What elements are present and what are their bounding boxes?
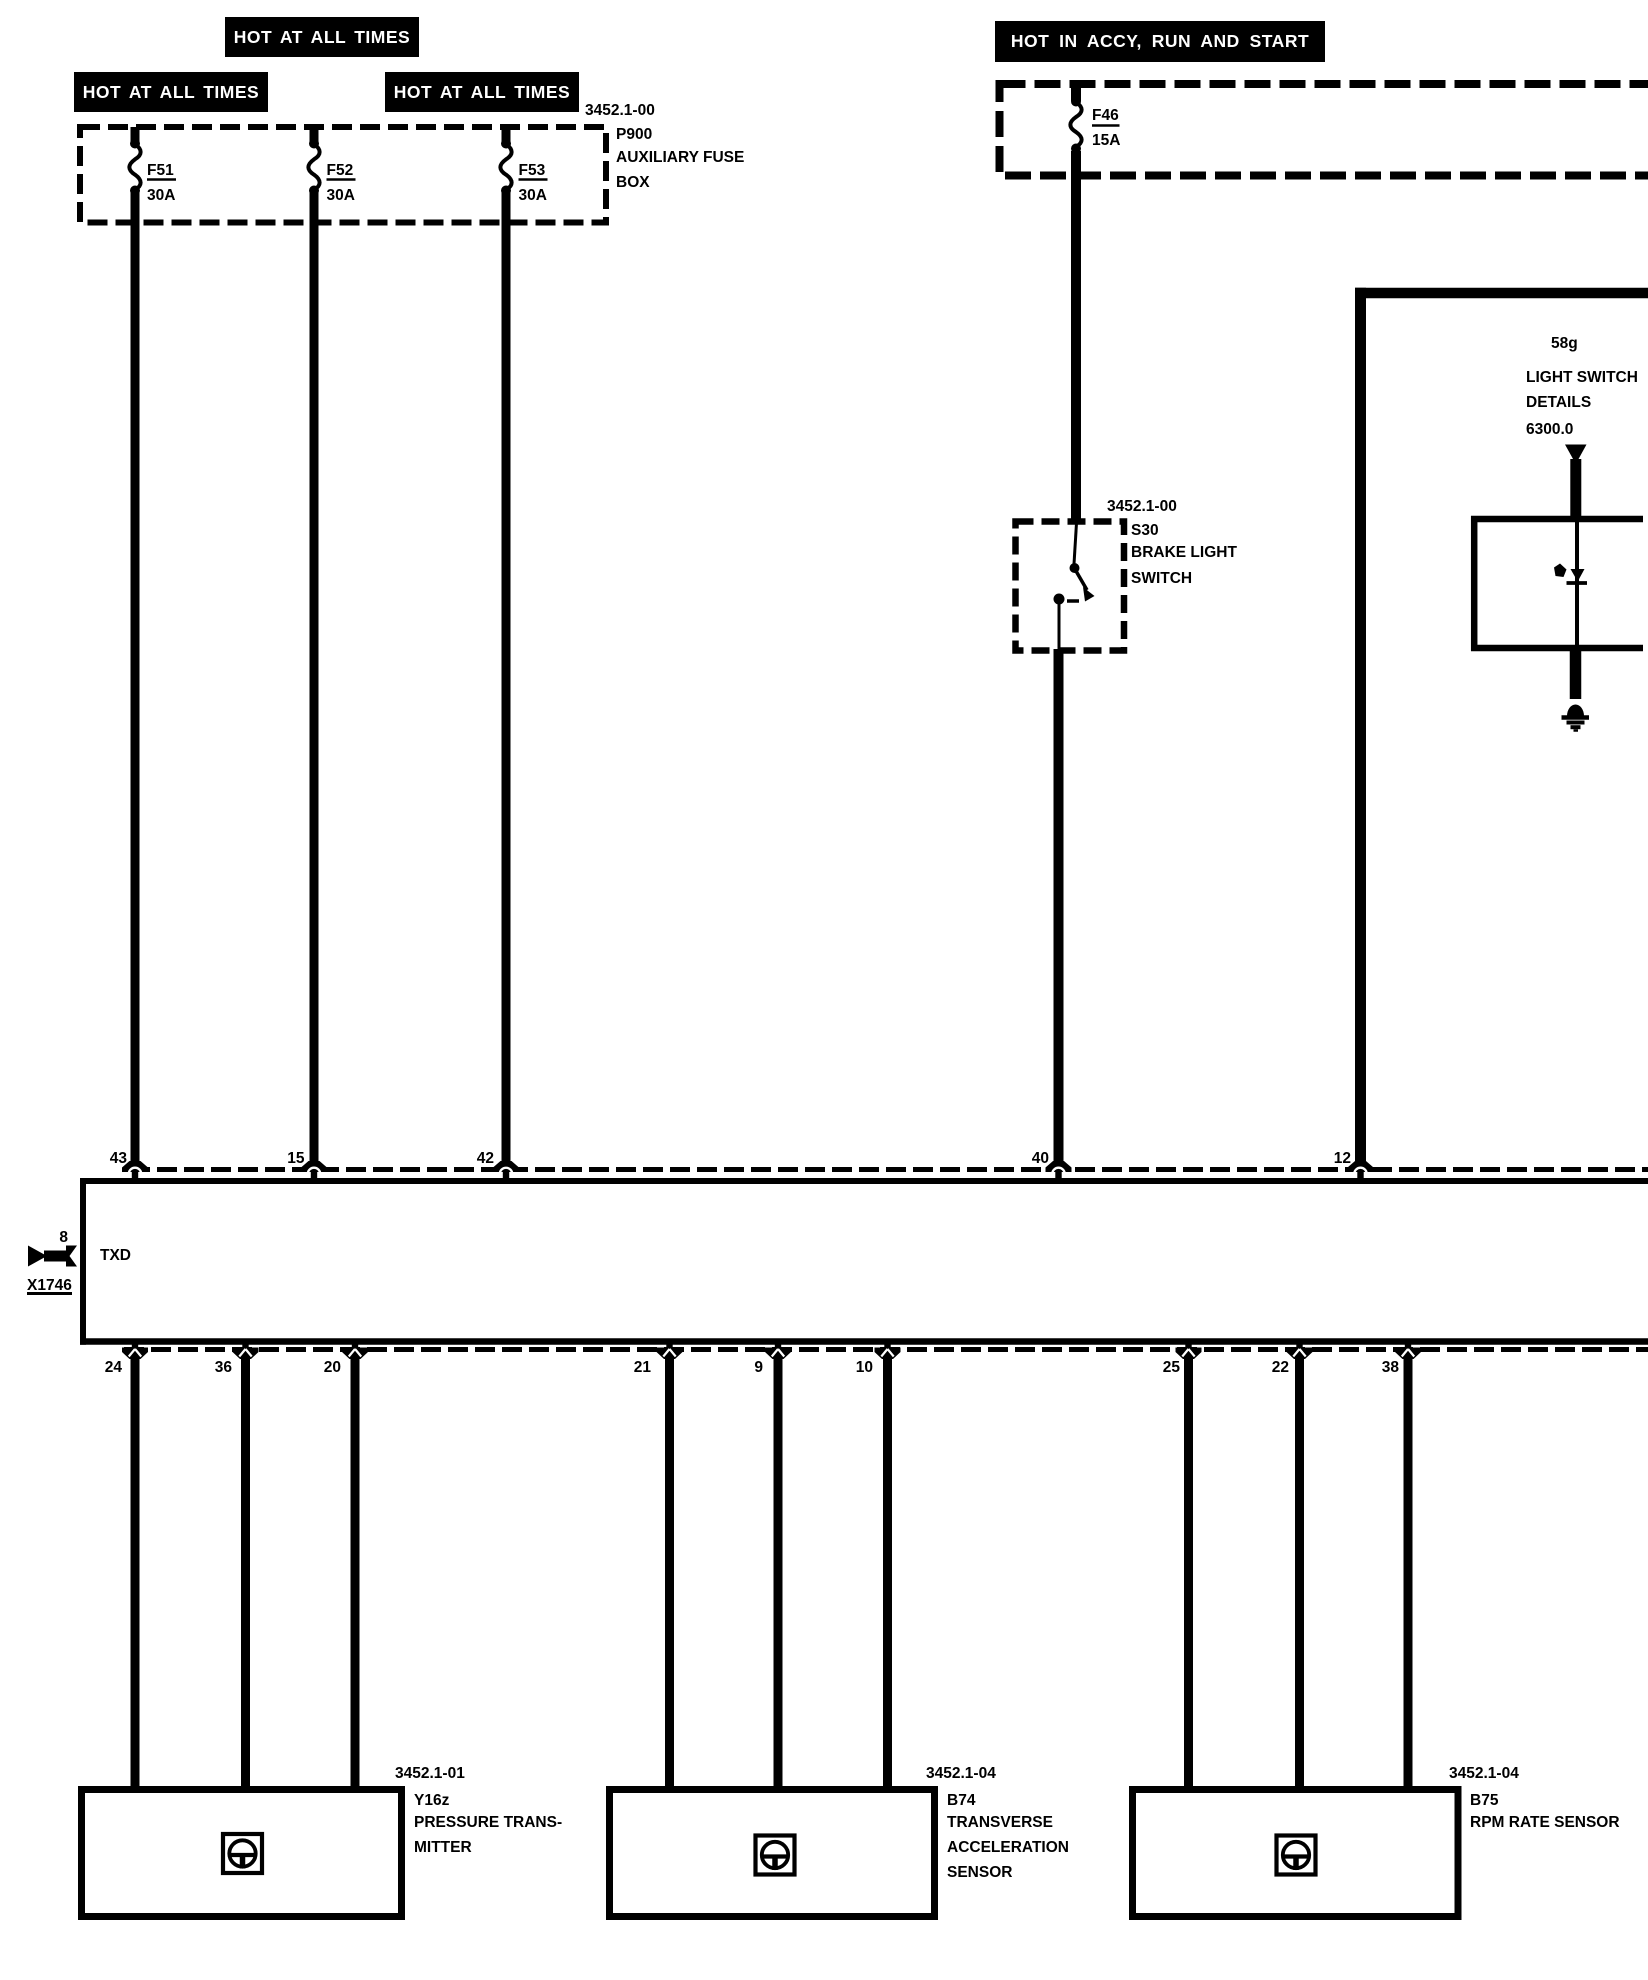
fuse F52 label xyxy=(327,162,354,179)
arrow into light switch details xyxy=(1565,445,1587,465)
wire pin 38 to sensor xyxy=(1395,1340,1421,1359)
rpm rate sensor B75 box xyxy=(1133,1790,1459,1917)
X1746 underline xyxy=(27,1292,72,1295)
wire from S30 to band pin 40 xyxy=(1054,649,1064,1166)
wire from fuse F52 to band xyxy=(310,193,319,1166)
wire pin 10 to sensor xyxy=(875,1340,901,1359)
wire pin 21 to sensor xyxy=(657,1340,683,1359)
wire pin 9 to sensor xyxy=(765,1340,791,1359)
wire pin 25 to sensor xyxy=(1176,1340,1202,1359)
ground symbol xyxy=(1567,705,1584,717)
header HOT AT ALL TIMES (left) xyxy=(74,72,268,112)
wire from fuse F46 to brake light switch S30 xyxy=(1071,151,1081,520)
pin numbers bottom row xyxy=(105,1359,122,1376)
control unit band bottom dashed line xyxy=(124,1347,1648,1352)
label B75 rpm rate sensor xyxy=(1449,1765,1519,1782)
label Y16z pressure transmitter xyxy=(395,1765,465,1782)
fuse F46 xyxy=(1071,84,1081,101)
header HOT IN ACCY RUN AND START xyxy=(995,21,1325,62)
wire pin 22 to sensor xyxy=(1287,1340,1313,1359)
fuse F52 xyxy=(310,127,319,143)
wire pin 24 to sensor xyxy=(122,1340,148,1359)
connector X1746 labels xyxy=(59,1229,68,1246)
fuse F53 xyxy=(502,127,511,143)
header HOT AT ALL TIMES (right) xyxy=(385,72,579,112)
fuse box P900 dashed outline xyxy=(80,127,606,223)
light switch details box xyxy=(1471,516,1643,523)
fuse F53 label xyxy=(519,162,546,179)
wire pin 36 to sensor xyxy=(233,1340,259,1359)
wire from fuse F53 to band xyxy=(502,193,511,1166)
pressure transmitter Y16z box xyxy=(82,1790,402,1917)
light switch wiper symbol xyxy=(1571,569,1585,582)
fuse label underlines xyxy=(147,178,176,181)
wire from arrow to light switch box xyxy=(1570,459,1581,520)
light switch contact wire xyxy=(1575,519,1579,648)
transverse acceleration sensor B74 box xyxy=(610,1790,935,1917)
label P900 auxiliary fuse box xyxy=(585,102,655,119)
header HOT AT ALL TIMES (top) xyxy=(225,17,419,57)
fuse F51 xyxy=(131,127,140,143)
label B74 transverse acceleration sensor xyxy=(926,1765,996,1782)
control unit band rectangle xyxy=(80,1178,1648,1184)
control module box outline top edge xyxy=(1355,288,1648,299)
label S30 brake light switch xyxy=(1107,498,1177,515)
connector X1746 arrow xyxy=(28,1246,47,1267)
wire from light switch to ground xyxy=(1570,648,1582,699)
wire from fuse F51 to band xyxy=(131,193,140,1166)
control module box outline left edge / wire pin 12 xyxy=(1355,288,1366,1166)
pin numbers top row xyxy=(110,1150,127,1167)
fuse box F46 dashed outline xyxy=(1000,84,1648,176)
label 58g light switch details xyxy=(1551,335,1578,352)
wire pin 20 to sensor xyxy=(342,1340,368,1359)
fuse F51 label xyxy=(147,162,174,179)
brake light switch S30 dashed outline xyxy=(1016,522,1125,651)
control unit band top dashed line xyxy=(130,1167,1648,1172)
brake light switch S30 contacts xyxy=(1074,523,1077,564)
fuse F46 label xyxy=(1092,107,1119,124)
